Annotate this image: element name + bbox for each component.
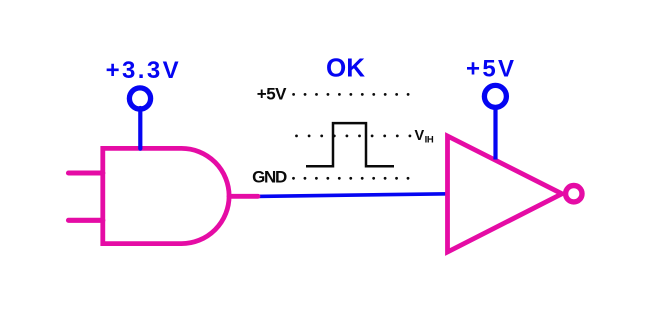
svg-text:V: V <box>415 128 425 144</box>
dotted level line +5V <box>292 93 409 96</box>
dotted level line GND <box>292 177 409 180</box>
svg-text:+3.3V: +3.3V <box>106 57 181 84</box>
wire from +5V terminal to buffer <box>493 106 497 160</box>
svg-text:GND: GND <box>252 168 287 187</box>
svg-text:IH: IH <box>425 134 434 145</box>
wire from +3.3V terminal to AND gate <box>138 108 142 149</box>
svg-text:+5V: +5V <box>257 84 287 103</box>
power +5V terminal circle <box>484 85 506 107</box>
AND gate U1 <box>103 148 229 243</box>
inverter output bubble <box>566 186 582 202</box>
wire input A of AND gate <box>69 170 103 175</box>
wire net from AND output to buffer input <box>256 194 449 197</box>
wire AND gate output stub <box>229 194 258 199</box>
svg-text:OK: OK <box>326 52 365 82</box>
svg-text:+5V: +5V <box>466 56 516 83</box>
wire input B of AND gate <box>69 218 103 223</box>
power +3.3V terminal circle <box>129 88 150 109</box>
waveform pulse trace <box>306 123 394 166</box>
buffer/inverter U2 triangle <box>448 136 563 252</box>
dotted level line VIH <box>295 135 411 138</box>
